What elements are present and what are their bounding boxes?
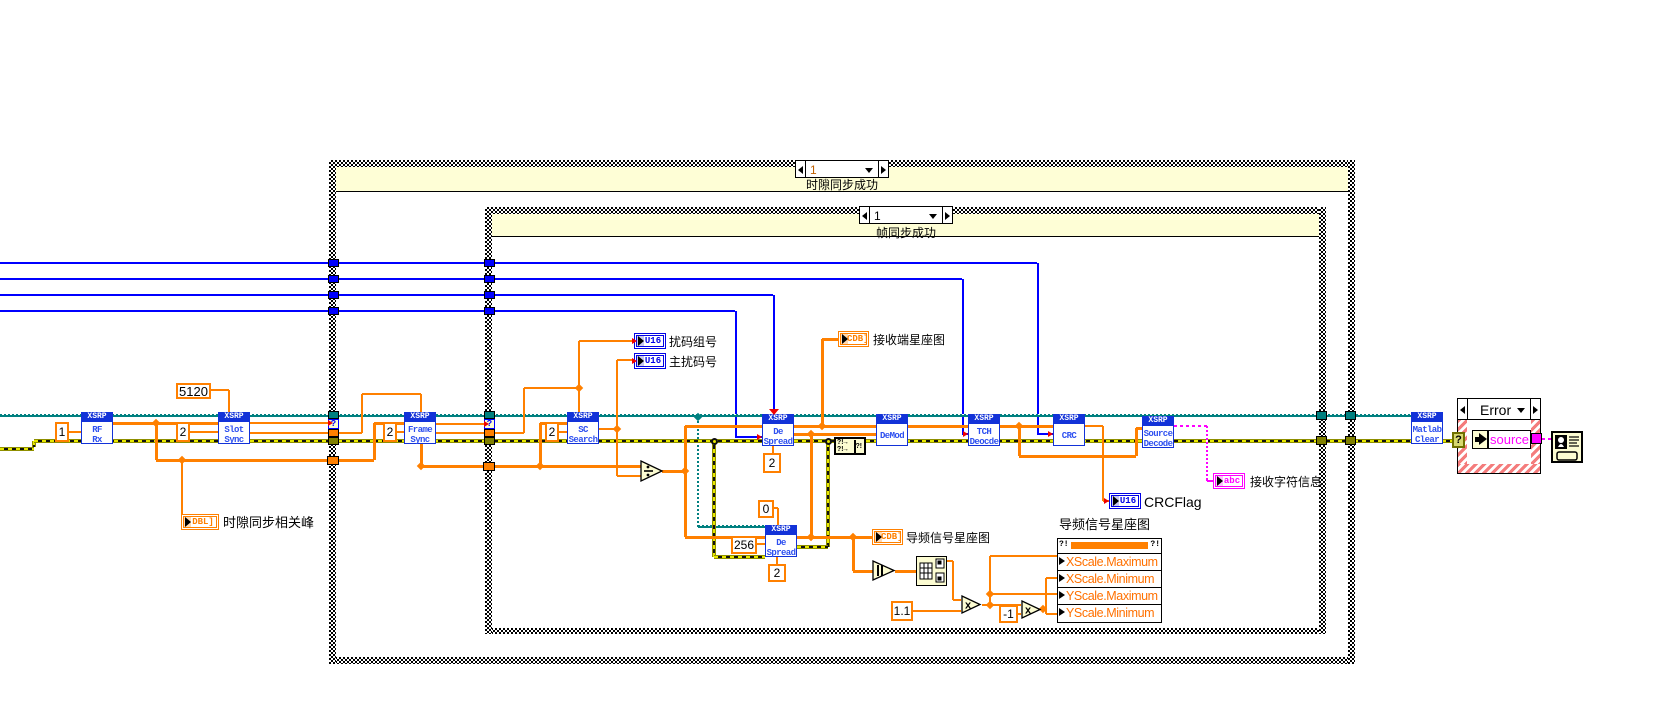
- svg-text:x: x: [1025, 605, 1032, 617]
- svg-text:x: x: [965, 600, 972, 612]
